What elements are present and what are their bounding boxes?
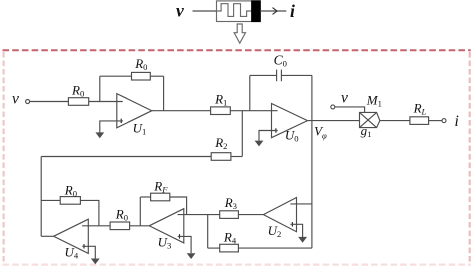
op-amp U1 xyxy=(117,94,152,128)
ground arrow (U0) xyxy=(255,141,264,147)
memristor symbol top: left lead wire xyxy=(193,10,217,12)
wire: U2 inverting input to Vphi rail xyxy=(290,203,312,205)
block arrow pointing down into dashed box xyxy=(234,24,245,43)
wire: multiplier output to RL xyxy=(380,120,410,122)
wire: RF top right + riser to U3 inverting input xyxy=(170,197,187,215)
memristor square-wave element xyxy=(217,4,252,17)
node Vphi vertical rail xyxy=(311,75,313,248)
node: feedback riser junction xyxy=(99,76,101,101)
U3 plus sign xyxy=(179,234,181,238)
svg-text:v: v xyxy=(12,91,19,108)
wire: R1 to U0 inverting input xyxy=(230,110,277,112)
op-amp U3 (points left) xyxy=(149,209,184,243)
op-amp U4 (points left) xyxy=(54,219,89,253)
ground arrow (U4) xyxy=(91,259,100,265)
resistor R0 (U3-U4 link) xyxy=(110,222,130,230)
resistor RF xyxy=(151,193,170,201)
U1 plus sign xyxy=(120,119,122,123)
svg-text:U4: U4 xyxy=(65,244,79,260)
terminal v (multiplier input) xyxy=(331,105,335,109)
resistor RL xyxy=(410,117,429,125)
op-amp U0 xyxy=(272,104,308,138)
memristor body box xyxy=(217,1,261,22)
wire: U3 inverting input row to R3 xyxy=(178,214,220,216)
resistor R0 (U1 feedback) xyxy=(132,72,151,80)
svg-text:v: v xyxy=(176,1,184,21)
svg-text:U2: U2 xyxy=(268,223,282,239)
U4 plus sign xyxy=(83,244,85,248)
wire: R4 to Vphi rail xyxy=(238,247,312,249)
svg-text:R0: R0 xyxy=(115,207,128,223)
resistor R0 (U4 feedback) xyxy=(60,197,80,205)
wire: U4 feedback right + riser to inverting input xyxy=(80,200,99,225)
wire: C0 feedback right xyxy=(281,74,312,76)
U0 noninverting input wire to ground xyxy=(259,131,278,141)
wire: U4 feedback left (from output rail) xyxy=(41,199,60,201)
wire: U1 output to R1 xyxy=(152,110,211,112)
svg-text:i: i xyxy=(455,113,459,130)
resistor R0 (input) xyxy=(68,98,88,106)
svg-text:R0: R0 xyxy=(134,56,147,72)
wire: R2 row xyxy=(41,156,211,158)
wire: v terminal to R0a xyxy=(30,101,69,103)
U3 noninverting input wire to ground xyxy=(178,236,191,253)
svg-text:U0: U0 xyxy=(285,128,299,144)
svg-text:g1: g1 xyxy=(361,123,372,139)
U2 plus sign xyxy=(291,222,293,226)
wire: feedback top left xyxy=(100,75,132,77)
node: R2 branch riser (down) xyxy=(241,111,243,157)
svg-text:v: v xyxy=(341,90,348,107)
wire: feedback right riser to U1 output xyxy=(163,76,165,111)
wire: U0 output to multiplier xyxy=(308,120,360,122)
ground arrow (U3) xyxy=(187,253,196,259)
wire: feedback top right xyxy=(150,75,163,77)
memristor right lead wire with arrowhead xyxy=(260,10,286,12)
multiplier M1 body xyxy=(360,112,380,127)
U2 noninverting input wire to ground xyxy=(290,224,302,237)
ground arrow (U1) xyxy=(95,132,104,138)
node: R3/R4 left junction vertical xyxy=(207,215,209,249)
wire: R0a to U1 inverting input xyxy=(89,101,123,103)
wire: RF feedback top left xyxy=(140,196,150,198)
op-amp U2 (points left) xyxy=(263,198,296,232)
wire: RL to output terminal xyxy=(429,120,442,122)
input terminal v xyxy=(26,100,30,104)
resistor R2 xyxy=(211,153,231,161)
wire: v terminal into multiplier top xyxy=(335,107,365,113)
svg-text:R4: R4 xyxy=(223,230,237,246)
wire: R0 link to U3 output xyxy=(130,225,150,227)
resistor R3 xyxy=(220,211,239,219)
svg-text:RL: RL xyxy=(413,100,427,116)
U1 noninverting input wire to ground xyxy=(100,121,123,133)
wire: junction to R4 xyxy=(208,247,220,249)
svg-text:R0: R0 xyxy=(64,183,77,199)
wire: C0 feedback left xyxy=(250,74,277,76)
svg-text:R1: R1 xyxy=(214,92,227,108)
left vertical rail (U4 output up to R2) xyxy=(40,157,42,237)
ground arrow (U2) xyxy=(298,237,307,243)
svg-text:M1: M1 xyxy=(366,92,382,108)
dashed red boundary box xyxy=(3,49,471,51)
svg-text:U1: U1 xyxy=(133,120,147,136)
svg-text:RF: RF xyxy=(153,179,168,195)
svg-text:Vφ: Vφ xyxy=(314,124,327,141)
svg-text:R0: R0 xyxy=(71,83,84,99)
svg-text:R2: R2 xyxy=(214,135,227,151)
svg-text:C0: C0 xyxy=(274,53,287,69)
wire: R2 to riser xyxy=(231,156,242,158)
wire: U4 output xyxy=(41,235,53,237)
U4 noninverting input wire to ground xyxy=(82,246,95,258)
wire: U4 inverting input row xyxy=(82,225,110,227)
node: C0 feedback riser (up) xyxy=(249,75,251,110)
svg-text:U3: U3 xyxy=(158,235,172,251)
svg-text:i: i xyxy=(290,1,295,21)
memristor polarity black bar xyxy=(252,1,261,22)
resistor R1 xyxy=(211,107,231,115)
U0 plus sign xyxy=(275,128,277,132)
output terminal i xyxy=(442,119,446,123)
capacitor C0 xyxy=(276,70,278,82)
resistor R4 xyxy=(220,244,239,252)
wire: RF feedback left riser (from U3 output wire) xyxy=(139,197,141,226)
wire: R3 to U2 output xyxy=(238,214,263,216)
svg-text:R3: R3 xyxy=(224,195,237,211)
